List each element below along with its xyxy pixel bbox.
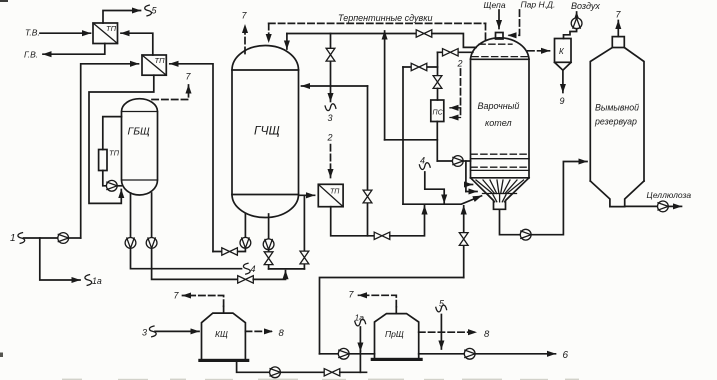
wire dashed vent 7 from GBSh top <box>152 85 189 100</box>
svg-text:4: 4 <box>420 156 425 166</box>
svg-text:9: 9 <box>560 96 565 106</box>
wire turpentine riser to dashed header <box>384 31 386 140</box>
svg-text:Воздух: Воздух <box>571 1 600 11</box>
pump P10 <box>270 367 281 378</box>
svg-text:1: 1 <box>10 233 16 244</box>
wire blow line horizontal y33.5 <box>287 33 416 35</box>
wire P4 down to valve line y279 <box>152 248 238 279</box>
cut mark stream 4 out <box>243 263 250 274</box>
wire x331 riser with globe valve G1 <box>330 34 332 87</box>
wire pulp outlet <box>625 205 658 207</box>
svg-text:Г.В.: Г.В. <box>24 50 38 60</box>
svg-text:ПрЩ: ПрЩ <box>385 329 404 339</box>
wire connector between globe valves <box>269 268 305 270</box>
wire stream 4 feed into header <box>425 172 444 203</box>
wire V6 to 1a corner <box>340 371 361 373</box>
wire GChSh shoulder to U3 left input <box>300 194 315 196</box>
wire pump P2 into GBSh bottom <box>117 185 121 187</box>
pump P3 GBSh left <box>125 238 136 249</box>
wire G2 to regulator box top <box>437 88 439 100</box>
wire dashed 2 into TP box3 <box>330 145 332 178</box>
valve V2 on y52.3 <box>438 51 473 53</box>
svg-text:Целлюлоза: Целлюлоза <box>647 190 692 200</box>
regulator box PS <box>431 100 444 122</box>
wire dashed turpentine main line <box>269 22 486 24</box>
wire stream 5 outlet top <box>103 11 141 24</box>
vessel Vymyvnoi rezervuar <box>590 37 644 207</box>
heat exchanger U3 (TP at GChSh bottom) <box>318 184 343 206</box>
valve V3 <box>222 248 238 255</box>
cut mark stream 5 in <box>436 305 447 312</box>
cone nozzle arrow upper <box>466 184 473 186</box>
wire feed 1 riser into U2 left <box>81 64 139 238</box>
wire loop bottom run left of PrSh <box>320 353 339 355</box>
svg-text:6: 6 <box>563 350 569 361</box>
wire U2 top to U1 right <box>121 33 153 55</box>
wire dashed vent 7 KSh <box>183 296 224 307</box>
heat exchanger U1 (TP top-left) <box>93 23 118 44</box>
globe valve G3 <box>264 252 273 265</box>
wire chips feed arrow <box>498 10 500 29</box>
wire PrSh neck <box>395 307 397 314</box>
pump P7 circulation <box>452 156 463 167</box>
svg-text:Щепа: Щепа <box>484 0 506 10</box>
vessel Varochnyi kotel <box>471 38 530 209</box>
wire solid blow line from GChSh dome <box>286 34 288 50</box>
wire dashed 2 control line <box>460 69 462 118</box>
wire dashed steam line <box>508 10 520 35</box>
pump P1 on feed 1 <box>58 233 69 244</box>
svg-text:Терпентинные сдувки: Терпентинные сдувки <box>338 13 432 23</box>
svg-text:Вымывной: Вымывной <box>595 103 639 113</box>
scan artifact bottom text remnants <box>62 379 579 380</box>
valve V5 <box>374 232 390 239</box>
wire circulation suction y161 <box>437 160 452 162</box>
pump P11 <box>338 348 349 359</box>
svg-text:резервуар: резервуар <box>594 117 637 127</box>
wire GV outlet <box>43 44 105 55</box>
pump P5 <box>240 237 251 248</box>
wire hot liquor into U2 right <box>170 64 213 252</box>
wire PS box bottom to suction <box>436 122 438 162</box>
wire riser G5 from loop <box>463 206 465 278</box>
cut mark stream 1 <box>18 233 25 244</box>
wire blow line kotel to rezervuar <box>500 209 521 234</box>
cut mark stream 5 <box>145 5 152 16</box>
wire dashed kotel dome to K condenser <box>528 50 550 52</box>
scan artifact left edge mark <box>0 353 3 358</box>
scan artifact top-left corner <box>0 0 8 2</box>
svg-text:ТП: ТП <box>109 149 120 158</box>
wire air arrow up <box>576 12 578 18</box>
heater TP (small rect at GBSh) <box>99 149 120 171</box>
wire TP heater to pump P2 <box>103 171 107 186</box>
wire P5 to valve V3 to riser x213 <box>213 248 245 251</box>
wire U2 bottom outlet to GBSh riser <box>89 75 154 203</box>
valve V6 <box>324 369 340 376</box>
dashed control arrow upper into PS <box>450 107 461 109</box>
svg-text:3: 3 <box>142 328 147 338</box>
svg-text:ПС: ПС <box>433 110 444 117</box>
svg-text:Т.В.: Т.В. <box>25 28 40 38</box>
globe valve G2 <box>433 76 442 89</box>
wire P6 to globe valve G3 <box>268 250 270 269</box>
dashed level line above chord <box>472 56 528 58</box>
strainer fan upper <box>476 180 524 194</box>
wire cross connector y139.8 <box>385 139 438 141</box>
wire dashed vent 7 PrSh <box>359 295 397 307</box>
wire dashed drop into kotel dome <box>485 23 487 41</box>
valve V4 on y279 line <box>238 276 254 283</box>
wire V2 to globe valve G2 riser <box>437 52 439 75</box>
wire P7 into kotel screen band <box>463 160 470 162</box>
pump P9 pulp <box>658 201 669 212</box>
wire stream 5 down arrow <box>440 315 442 350</box>
wire Vx drop from y86 to V5 line <box>367 86 369 236</box>
svg-text:3: 3 <box>328 113 333 123</box>
wire branch 1a <box>40 238 80 280</box>
dashed control arrow lower into PS <box>450 117 461 119</box>
wire vent 7 rezervuar <box>617 21 619 37</box>
cut mark stream 1a <box>85 275 92 286</box>
cut mark stream 4 in <box>419 163 430 170</box>
wire pulp arrow <box>668 205 681 207</box>
wire GBSh right bottom outlet <box>151 193 153 238</box>
wire V4 to riser into y269 connector <box>253 271 285 280</box>
pump P6 <box>263 239 274 250</box>
svg-text:ТП: ТП <box>106 24 117 33</box>
wire dashed drop into GChSh dome <box>268 23 270 42</box>
vessel GChSh <box>232 45 299 217</box>
chip nozzle <box>496 33 504 40</box>
wire long riser x400 <box>402 67 404 204</box>
dashed level line in dome <box>479 43 512 45</box>
pump P8 blow line <box>520 229 531 240</box>
svg-text:котел: котел <box>485 118 512 128</box>
wire GChSh left bottom outlet <box>244 214 246 237</box>
tank PrSh <box>371 314 423 361</box>
svg-text:1а: 1а <box>355 313 365 323</box>
svg-text:ТП: ТП <box>330 189 340 196</box>
heat exchanger U2 (TP second) <box>142 55 166 75</box>
pump P12 <box>464 348 475 359</box>
wire 1a feed continues to bottom run <box>360 351 366 372</box>
wire GBSh left bottom outlet <box>130 193 132 238</box>
wire bottom run right of PrSh <box>419 353 465 355</box>
valve V1 on blow line <box>416 30 432 37</box>
svg-text:4: 4 <box>251 264 256 274</box>
svg-text:ГЧЩ: ГЧЩ <box>254 124 280 138</box>
valve V7 on y65.4 <box>411 63 427 70</box>
wire blow line to corner x463.6 <box>432 34 476 48</box>
wire GChSh right bottom outlet <box>268 214 270 239</box>
wire KSh neck <box>223 306 225 313</box>
svg-text:2: 2 <box>457 59 463 69</box>
strainer fan lower <box>488 195 511 202</box>
wire x304 drop with globe valve G4 <box>303 195 305 269</box>
vessel GBSh <box>122 99 158 195</box>
wire U3 bottom to valve V5 line <box>331 207 375 236</box>
cut mark stream 3 <box>325 104 336 111</box>
wire blower to K top <box>564 29 577 39</box>
svg-text:8: 8 <box>279 328 285 339</box>
cut mark stream 3 in <box>149 326 156 337</box>
svg-text:КЩ: КЩ <box>215 329 228 339</box>
pump P4 GBSh right <box>146 238 157 249</box>
wire y65.4 branch with valve <box>403 66 438 68</box>
wire P11 to PrSh <box>349 353 374 355</box>
wire V5 to riser up into header <box>390 206 425 236</box>
wire dashed vent 7 from GChSh dome <box>244 25 246 54</box>
wire stream 1 inlet <box>24 237 58 239</box>
globe valve G5 <box>459 233 468 246</box>
svg-text:2: 2 <box>327 133 333 143</box>
wire header into cone <box>403 196 482 204</box>
wire side branch into GChSh right <box>302 85 368 87</box>
wire big loop line <box>320 278 464 354</box>
wire 1a feed down <box>359 327 361 351</box>
svg-text:1а: 1а <box>92 276 102 286</box>
wire P3 down to stream 4 header <box>131 248 242 268</box>
wire blowoff 3 down arrow <box>330 86 332 102</box>
wire dashed 8 from PrSh <box>419 331 477 333</box>
cone nozzle arrow lower <box>466 191 477 193</box>
pump P2 circulation <box>106 180 117 191</box>
svg-text:Варочный: Варочный <box>478 101 520 111</box>
svg-text:Пар Н.Д.: Пар Н.Д. <box>521 0 556 10</box>
wire dashed 8 from KSh <box>245 330 272 332</box>
wire P8 to rezervuar inlet <box>531 162 587 235</box>
wire pump P1 to riser corner <box>69 237 81 239</box>
dashed screen band lines <box>471 153 529 155</box>
wire K outlet 9 <box>562 70 564 92</box>
wire TV inlet <box>40 32 91 34</box>
cut mark stream 1a in <box>355 319 366 326</box>
wire stream 3 into KSh <box>155 330 199 332</box>
tank KSh <box>198 313 249 362</box>
wire KSh bottom outlet <box>237 362 270 372</box>
air blower <box>571 18 582 29</box>
wire P10 to valve V6 <box>281 371 325 373</box>
wire outlet 6 <box>475 353 555 355</box>
svg-text:ТП: ТП <box>155 56 166 65</box>
wire branch down to cone nozzles <box>465 161 467 192</box>
svg-text:ГБЩ: ГБЩ <box>128 126 151 138</box>
wire GBSh to TP heater loop <box>103 117 122 150</box>
condenser K <box>555 39 572 71</box>
globe valve G6 <box>363 190 372 203</box>
svg-text:8: 8 <box>484 329 490 340</box>
